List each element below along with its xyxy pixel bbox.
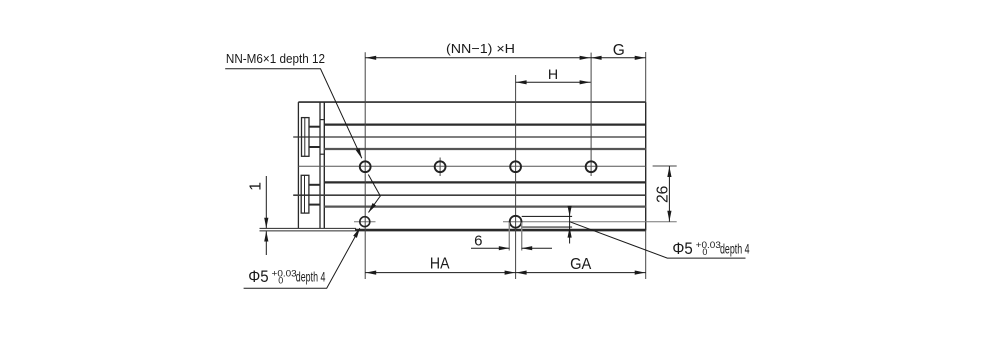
leader phi5 right xyxy=(570,222,746,258)
rail line 6 thick xyxy=(324,206,645,208)
hole column extension line 1 xyxy=(364,52,366,279)
end plate right edge xyxy=(319,102,321,228)
leader branch to bottom hole xyxy=(368,175,380,213)
rail line 2 xyxy=(293,136,646,138)
top mounting hole 4 xyxy=(586,161,597,172)
svg-text:Φ5: Φ5 xyxy=(672,239,692,258)
hole 2 vertical tick xyxy=(439,158,441,177)
svg-text:H: H xyxy=(548,67,558,83)
leader NN-M6 xyxy=(225,69,362,158)
dimension 26 xyxy=(668,166,670,222)
rail line 4 thick xyxy=(324,181,645,183)
dimension GA xyxy=(516,272,646,274)
svg-text:depth 4: depth 4 xyxy=(296,270,326,285)
svg-text:1: 1 xyxy=(248,182,265,191)
counterbore slot top line xyxy=(522,215,572,217)
svg-text:NN-M6×1 depth 12: NN-M6×1 depth 12 xyxy=(226,51,325,66)
svg-text:0: 0 xyxy=(278,275,283,285)
right edge extension above xyxy=(645,52,647,102)
26 dim top extension xyxy=(653,165,677,167)
body left edge xyxy=(323,102,325,228)
svg-text:G: G xyxy=(613,42,625,59)
svg-text:Φ5: Φ5 xyxy=(248,267,268,286)
bottom-left hole horizontal tick xyxy=(354,221,376,223)
right edge extension below xyxy=(645,231,647,279)
bottom hole row centerline xyxy=(503,221,677,223)
slot width extension right xyxy=(521,223,523,251)
svg-text:26: 26 xyxy=(655,185,672,203)
svg-text:HA: HA xyxy=(430,256,450,273)
notch connector top xyxy=(320,119,324,121)
dimension HA xyxy=(365,272,515,274)
baseline under body xyxy=(260,230,646,232)
slot height mini dimension xyxy=(569,206,571,244)
top mounting hole 1 xyxy=(360,161,371,172)
body bottom edge xyxy=(355,229,646,231)
label phi5 bottom left xyxy=(248,267,326,286)
hole column extension line 2 xyxy=(515,75,517,279)
dimension G xyxy=(591,57,646,59)
top mounting hole 2 xyxy=(435,161,446,172)
svg-text:+0.03: +0.03 xyxy=(272,268,297,278)
top mounting hole 3 xyxy=(510,161,521,172)
dimension 1 xyxy=(265,176,267,228)
upper rod stem xyxy=(309,127,320,147)
svg-text:0: 0 xyxy=(702,247,707,257)
slot width extension left xyxy=(508,223,510,251)
top hole row centerline xyxy=(298,165,645,167)
svg-text:GA: GA xyxy=(570,256,592,273)
end plate left edge xyxy=(297,102,299,228)
dimension H xyxy=(516,81,591,83)
piston rod upper T-head xyxy=(302,118,310,157)
svg-text:6: 6 xyxy=(474,233,482,250)
counterbore slot bottom line xyxy=(522,226,572,228)
body top edge xyxy=(298,101,645,103)
svg-text:+0.03: +0.03 xyxy=(696,240,721,250)
body right edge xyxy=(645,102,647,231)
end plate bottom line xyxy=(260,227,357,229)
rail line 1 thick xyxy=(324,123,645,125)
label phi5 right xyxy=(672,239,750,258)
lower rod stem xyxy=(309,185,320,205)
rail line 5 xyxy=(293,194,646,196)
hole column extension line 3 xyxy=(590,53,592,176)
dimension 6 xyxy=(471,247,509,249)
notch connector mid xyxy=(320,153,324,155)
dimension (NN-1)xH xyxy=(365,57,590,59)
leader phi5 bottom left xyxy=(244,228,360,288)
bottom hole center xyxy=(510,216,522,228)
svg-text:(NN−1) ×H: (NN−1) ×H xyxy=(446,41,515,56)
bottom hole left xyxy=(360,217,370,227)
rail line 3 thick xyxy=(324,148,645,150)
piston rod lower T-head xyxy=(301,175,309,213)
svg-text:depth 4: depth 4 xyxy=(720,242,750,257)
